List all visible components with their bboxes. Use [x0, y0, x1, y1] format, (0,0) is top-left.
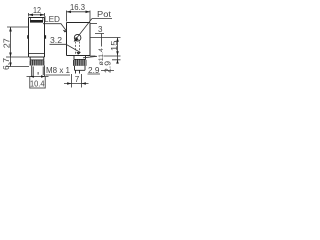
- svg-text:2.9: 2.9: [88, 65, 100, 75]
- potentiometer circle: [74, 34, 81, 41]
- left view knurled nut: [30, 60, 45, 65]
- dimension 16.3: [67, 2, 91, 21]
- left view connector collar: [30, 57, 44, 60]
- svg-text:15: 15: [109, 40, 119, 51]
- svg-text:6.7: 6.7: [1, 58, 11, 70]
- svg-text:ø11.4: ø11.4: [98, 47, 105, 65]
- label diameter 11.4 with leader: [83, 47, 105, 65]
- right view connector collar: [74, 56, 86, 60]
- dimension 10.4: [27, 75, 49, 88]
- label LED with leader: [43, 14, 67, 33]
- pot hidden hole dashed lines: [76, 42, 80, 56]
- svg-text:16.3: 16.3: [70, 2, 85, 12]
- dimension 7: [64, 74, 89, 88]
- svg-text:3.2: 3.2: [50, 35, 62, 45]
- svg-text:7: 7: [75, 74, 80, 84]
- label 3.2 with leader: [50, 35, 81, 55]
- svg-text:M8 x 1: M8 x 1: [46, 65, 70, 75]
- label Pot with leader through pot: [74, 9, 112, 42]
- dimension 2.9 vertical: [90, 56, 121, 73]
- svg-text:Pot: Pot: [97, 9, 112, 19]
- dimension 6.7: [1, 57, 29, 70]
- left view top LED window band: [30, 18, 43, 23]
- svg-text:3: 3: [98, 24, 103, 34]
- right view body outline: [67, 23, 91, 56]
- label M8 x 1: [46, 65, 71, 75]
- right view thread and tip: [75, 66, 86, 74]
- left view bottom seam line: [29, 53, 45, 55]
- right view knurled nut: [73, 60, 87, 66]
- left view M8 thread stub: [32, 66, 45, 77]
- dimension 3: [90, 24, 105, 47]
- dimension 15: [90, 38, 121, 64]
- left view body outline: [29, 18, 45, 58]
- left view side mounting nubs: [27, 35, 46, 39]
- label 2.9 horizontal: [88, 65, 115, 75]
- dimension 27: [1, 27, 28, 57]
- svg-text:LED: LED: [44, 14, 60, 24]
- svg-text:27: 27: [1, 38, 11, 48]
- svg-text:10.4: 10.4: [30, 78, 45, 88]
- dimension 12: [29, 5, 45, 16]
